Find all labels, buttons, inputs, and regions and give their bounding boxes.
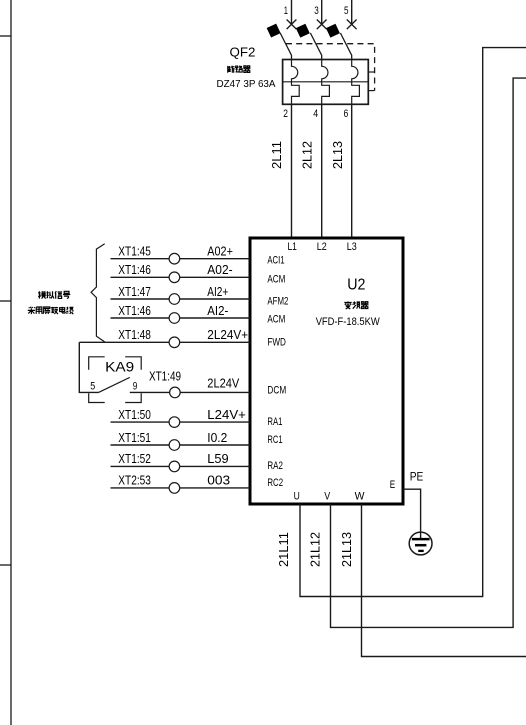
QF2 trip unit midline	[283, 81, 369, 83]
wire row6 2L24V	[130, 391, 250, 393]
svg-text:RC2: RC2	[267, 477, 283, 489]
svg-text:XT1:50: XT1:50	[118, 407, 151, 422]
svg-text:L59: L59	[207, 451, 228, 466]
thermal release pole2	[322, 60, 328, 82]
svg-text:XT1:51: XT1:51	[118, 430, 151, 445]
terminal XT1:52	[169, 461, 180, 472]
breaker QF2 pole3 moving contact	[340, 33, 351, 60]
svg-text:003: 003	[207, 473, 230, 488]
svg-text:RA1: RA1	[267, 416, 282, 428]
svg-text:L3: L3	[347, 241, 357, 253]
terminal XT1:46 (row4)	[169, 313, 180, 324]
wire pole1 input	[291, 0, 293, 25]
wire W output 21L13	[362, 504, 526, 657]
svg-text:2: 2	[283, 108, 288, 120]
wire U output 21L11	[300, 48, 526, 597]
terminal XT1:48	[169, 337, 180, 348]
svg-text:DZ47 3P 63A: DZ47 3P 63A	[217, 79, 276, 90]
terminal XT1:50	[169, 417, 180, 428]
wire row10 003	[111, 487, 251, 489]
magnetic release pole1	[292, 82, 300, 105]
svg-text:2L12: 2L12	[299, 141, 314, 169]
wire row1 A02+	[111, 258, 251, 260]
svg-text:2L24V: 2L24V	[207, 376, 239, 391]
terminal XT1:45	[169, 253, 180, 264]
svg-text:AI2-: AI2-	[207, 303, 228, 318]
svg-text:L24V+: L24V+	[207, 407, 246, 422]
svg-text:21L12: 21L12	[308, 532, 323, 567]
breaker QF2 pole1 handle	[267, 24, 281, 38]
wire E to earth	[403, 489, 421, 538]
wire row4 AI2-	[111, 317, 251, 319]
svg-text:21L13: 21L13	[339, 532, 354, 567]
note line1 (Chinese) analog signal	[38, 291, 70, 299]
KA9 box corner TL	[89, 357, 105, 370]
wire KA9 branch	[79, 342, 98, 392]
wire row5 2L24V+	[79, 341, 250, 343]
svg-text:KA9: KA9	[105, 359, 134, 374]
svg-text:ACM: ACM	[267, 313, 285, 325]
svg-text:AI2+: AI2+	[207, 284, 228, 299]
svg-text:2L11: 2L11	[269, 141, 284, 169]
thermal release pole3	[352, 60, 358, 82]
QF2 trip linkage dashed	[286, 44, 375, 91]
linkage tick upper	[368, 71, 374, 73]
KA9 box corner BL	[89, 393, 105, 402]
svg-text:ACM: ACM	[267, 274, 285, 286]
svg-text:4: 4	[313, 108, 318, 120]
analog group brace	[91, 244, 105, 342]
wire row3 AI2+	[111, 298, 251, 300]
wire pole3 input	[351, 0, 353, 25]
svg-text:5: 5	[344, 5, 349, 17]
wire row7 L24V+	[111, 421, 251, 423]
svg-text:XT1:48: XT1:48	[118, 327, 151, 342]
KA9 box corner BR	[125, 393, 141, 402]
terminal XT2:53	[169, 483, 180, 494]
svg-text:V: V	[324, 490, 330, 502]
svg-text:VFD-F-18.5KW: VFD-F-18.5KW	[316, 316, 380, 328]
earth bar 3	[418, 550, 424, 552]
svg-text:W: W	[355, 490, 365, 502]
wire 2L12	[321, 104, 323, 238]
earth electrode circle	[409, 532, 432, 555]
breaker QF2 pole2 handle	[296, 24, 310, 38]
svg-text:XT1:45: XT1:45	[118, 244, 151, 259]
svg-text:L1: L1	[287, 241, 297, 253]
thermal release pole1	[292, 60, 298, 82]
svg-text:XT1:46: XT1:46	[118, 303, 151, 318]
VFD U2 box	[250, 238, 403, 504]
svg-text:PE: PE	[410, 470, 424, 484]
svg-text:6: 6	[344, 108, 349, 120]
svg-text:FWD: FWD	[267, 337, 286, 349]
wire row2 A02-	[111, 276, 251, 278]
wire row8 I0.2	[111, 444, 251, 446]
svg-text:U2: U2	[347, 277, 365, 294]
svg-text:ACI1: ACI1	[267, 254, 284, 266]
breaker QF2 pole1 contact cross	[287, 20, 297, 30]
relay contact KA9 blade	[99, 377, 130, 392]
breaker QF2 pole1 moving contact	[280, 33, 291, 60]
svg-text:1: 1	[284, 5, 288, 17]
wire row9 L59	[111, 465, 251, 467]
terminal XT1:46	[169, 272, 180, 283]
wire 2L13	[351, 104, 353, 238]
svg-text:U: U	[294, 490, 300, 502]
terminal XT1:51	[169, 440, 180, 451]
KA9 box corner TR	[125, 357, 141, 370]
svg-text:XT1:52: XT1:52	[118, 451, 151, 466]
svg-text:A02-: A02-	[207, 262, 232, 277]
breaker QF2 pole2 moving contact	[310, 33, 321, 60]
svg-text:9: 9	[133, 381, 138, 393]
svg-text:RA2: RA2	[267, 460, 283, 472]
QF2 trip unit box	[283, 60, 369, 105]
U2 name (Chinese)	[344, 301, 368, 309]
breaker QF2 pole3 handle	[326, 24, 340, 38]
svg-text:2L13: 2L13	[330, 141, 345, 169]
wire 2L11	[291, 104, 293, 238]
svg-text:3: 3	[314, 5, 319, 17]
wire V output 21L12	[331, 78, 526, 627]
breaker QF2 pole3 contact cross	[347, 20, 357, 30]
wire pole2 input	[321, 0, 323, 25]
terminal XT1:49	[170, 387, 181, 398]
linkage tick lower	[368, 90, 374, 92]
svg-text:AFM2: AFM2	[267, 295, 288, 307]
svg-text:XT2:53: XT2:53	[118, 473, 151, 488]
svg-text:A02+: A02+	[207, 244, 233, 259]
svg-text:QF2: QF2	[230, 45, 256, 60]
svg-text:E: E	[390, 479, 395, 491]
svg-text:XT1:46: XT1:46	[118, 262, 151, 277]
earth bar 2	[415, 544, 426, 547]
svg-text:L2: L2	[317, 241, 327, 253]
magnetic release pole2	[322, 82, 330, 105]
svg-text:21L11: 21L11	[276, 532, 291, 567]
svg-text:XT1:49: XT1:49	[149, 368, 181, 383]
svg-text:2L24V+: 2L24V+	[207, 327, 248, 342]
G_FRAME	[0, 0, 11, 725]
svg-text:XT1:47: XT1:47	[118, 284, 151, 299]
svg-text:5: 5	[90, 381, 95, 393]
breaker QF2 pole2 contact cross	[317, 20, 327, 30]
earth bar 1	[412, 538, 430, 541]
note line2 (Chinese) use shielded cable	[28, 307, 74, 314]
svg-text:I0.2: I0.2	[207, 430, 227, 445]
svg-text:DCM: DCM	[267, 385, 286, 397]
magnetic release pole3	[352, 82, 360, 105]
svg-text:RC1: RC1	[267, 434, 282, 446]
QF2 name (Chinese)	[228, 66, 251, 73]
terminal XT1:47	[169, 294, 180, 305]
